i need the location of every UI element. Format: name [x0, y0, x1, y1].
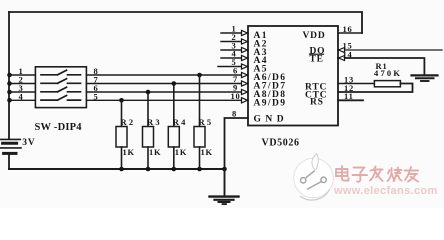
wire ground rail from battery to IC ground	[9, 168, 225, 170]
IC pin3 A3 stub	[221, 49, 242, 51]
IC pin2 A2 stub	[221, 41, 242, 43]
svg-text:8: 8	[232, 109, 237, 119]
svg-text:RS: RS	[310, 98, 324, 108]
svg-text:A9/D9: A9/D9	[254, 98, 287, 108]
svg-text:R4: R4	[173, 117, 188, 127]
svg-text:470K: 470K	[374, 68, 402, 78]
ground battery and IC GND	[210, 169, 239, 204]
svg-text:4: 4	[19, 91, 24, 101]
op IC U1 VD5026 box	[248, 26, 338, 126]
IC pin13 RTC wire to R1	[338, 83, 374, 85]
wire DIP out 5 to IC pin10 A9/D9	[86, 99, 242, 101]
watermark elecfans logo	[294, 154, 334, 200]
SW-DIP4 right pin numbers 8 7 6 5	[94, 66, 99, 101]
IC left pin name labels A1-A9/D9	[254, 31, 287, 108]
IC pin4 A4 stub	[221, 57, 242, 59]
svg-text:www.elecfans.com: www.elecfans.com	[333, 185, 438, 197]
wire DIP input row pin2	[9, 83, 35, 85]
pin15 arrowhead	[339, 48, 345, 53]
svg-text:10: 10	[231, 91, 241, 101]
svg-text:14: 14	[343, 49, 353, 59]
ground for TE pin	[412, 75, 438, 81]
overline of TE	[310, 53, 324, 55]
SW-DIP4 left pin numbers 1 2 3 4	[19, 66, 24, 101]
svg-text:1K: 1K	[201, 147, 213, 157]
IC right pin name labels	[303, 31, 328, 108]
resistor R5 1K	[194, 75, 205, 169]
IC pin15 DO output wire	[338, 49, 442, 51]
svg-text:1K: 1K	[123, 147, 135, 157]
svg-text:3V: 3V	[22, 138, 35, 148]
svg-text:TE: TE	[310, 55, 324, 65]
IC pin16 VDD wire to top rail	[338, 32, 362, 34]
IC pin1 A1 stub	[221, 32, 242, 34]
svg-text:SW -DIP4: SW -DIP4	[35, 122, 83, 133]
svg-text:R5: R5	[199, 117, 214, 127]
wire DIP input row pin4	[9, 99, 35, 101]
svg-text:11: 11	[344, 91, 354, 101]
resistor R4 1K	[168, 84, 179, 170]
wire DIP out 7 to IC pin7 A7/D7	[86, 83, 242, 85]
svg-text:1K: 1K	[149, 147, 161, 157]
resistor R3 1K	[143, 92, 154, 169]
svg-text:R2: R2	[121, 117, 136, 127]
svg-text:GND: GND	[254, 115, 289, 125]
svg-text:R3: R3	[147, 117, 162, 127]
battery BT1 3V	[0, 139, 21, 169]
IC pin11 RS stub	[338, 99, 363, 101]
resistor R1 470K	[374, 81, 400, 87]
switch SW-DIP4	[35, 67, 86, 108]
wire DIP input row pin1	[9, 74, 35, 76]
junction dots resistor taps	[119, 73, 202, 103]
IC pin5 A5 stub	[218, 66, 242, 68]
wire DIP out 8 to IC pin6 A6/D6	[86, 74, 242, 76]
junction dots on ground rail	[119, 167, 227, 172]
wire V+ top rail from supply bus to VDD branch	[9, 12, 362, 33]
svg-text:VD5026: VD5026	[262, 138, 300, 149]
IC pin8 GND wire to ground rail	[225, 118, 249, 169]
junction dots on supply bus	[7, 73, 12, 103]
svg-text:1K: 1K	[175, 147, 187, 157]
resistor R2 1K	[116, 100, 127, 169]
svg-text:16: 16	[343, 24, 353, 34]
wire R1 to IC pin12 CTC loop	[338, 84, 413, 93]
IC left pin arrowheads	[242, 30, 248, 103]
watermark text dianzifashaoyou	[335, 165, 417, 181]
wire DIP input row pin3	[9, 91, 35, 93]
pin14 arrowhead	[339, 56, 345, 61]
wire left supply bus	[8, 12, 10, 139]
IC pin14 TE wire to ground	[338, 58, 424, 75]
IC left pin numbers	[231, 24, 241, 101]
wire DIP out 6 to IC pin9 A8/D8	[86, 91, 242, 93]
svg-text:VDD: VDD	[303, 31, 326, 41]
